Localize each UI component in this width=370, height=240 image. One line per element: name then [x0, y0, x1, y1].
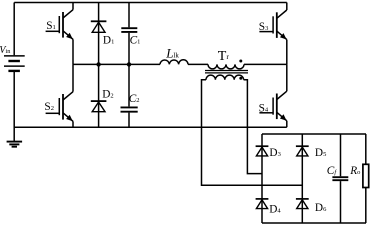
- transformer Tr primary polarity dot: [239, 60, 242, 63]
- capacitor Cf: [332, 134, 348, 223]
- ground: [7, 142, 23, 147]
- wire secondary right terminal to D3 D4 midpoint: [244, 80, 262, 174]
- wire S3 collector to top rail: [286, 3, 288, 11]
- svg-text:C2: C2: [129, 93, 140, 105]
- capacitor C1: [121, 3, 137, 65]
- wire mid rail node A: [73, 63, 160, 65]
- svg-text:S4: S4: [259, 102, 269, 114]
- wire S4 collector to midpoint: [286, 64, 288, 91]
- diode D1: [91, 3, 107, 65]
- svg-text:S2: S2: [44, 101, 54, 113]
- wire S2 emitter to bottom rail: [72, 121, 74, 127]
- transistor S4: [259, 91, 286, 121]
- wire top rail: [14, 2, 287, 4]
- resistor Ro: [363, 134, 369, 223]
- wire S1 emitter to mid node: [72, 39, 74, 64]
- wire S3 emitter to midpoint: [286, 40, 288, 65]
- wire bottom rail: [14, 126, 287, 128]
- diode D6: [296, 199, 309, 209]
- diode D4: [256, 199, 269, 209]
- svg-text:S1: S1: [46, 20, 56, 32]
- diode D5: [296, 146, 309, 156]
- svg-text:S3: S3: [259, 21, 269, 33]
- svg-text:Tr: Tr: [218, 49, 230, 64]
- wire bridge right leg: [301, 134, 303, 223]
- svg-text:D2: D2: [102, 88, 113, 100]
- wire primary to S3 S4 midpoint: [244, 63, 287, 65]
- svg-text:C1: C1: [130, 35, 141, 47]
- svg-text:D3: D3: [269, 147, 280, 159]
- wire S2 collector to mid node: [72, 64, 74, 91]
- transformer Tr primary winding: [208, 64, 244, 69]
- transformer Tr secondary winding: [206, 75, 244, 80]
- transformer Tr secondary polarity dot: [239, 77, 242, 80]
- wire bridge left leg: [261, 134, 263, 223]
- junction dot D1-D2: [96, 62, 100, 66]
- wire bridge bottom rail: [262, 222, 366, 224]
- wire left rail upper: [13, 3, 15, 56]
- svg-text:D4: D4: [269, 204, 281, 216]
- transformer Tr core: [205, 71, 248, 73]
- wire bridge top rail: [262, 133, 366, 135]
- junction dot C1-C2: [127, 62, 131, 66]
- svg-text:D5: D5: [315, 147, 326, 159]
- battery Vin: [4, 56, 25, 71]
- wire Llk to primary: [188, 63, 208, 65]
- wire S1 collector to top rail: [72, 3, 74, 10]
- diode D2: [91, 64, 107, 127]
- transistor S3: [259, 10, 286, 40]
- transistor S2: [46, 92, 73, 122]
- wire left rail lower: [13, 71, 15, 142]
- svg-text:Ro: Ro: [349, 165, 360, 177]
- wire secondary left terminal to D5 D6 midpoint: [202, 80, 303, 185]
- svg-text:D6: D6: [315, 202, 327, 214]
- transistor S1: [46, 10, 73, 40]
- svg-text:Llk: Llk: [165, 45, 179, 60]
- capacitor C2: [121, 64, 138, 127]
- diode D3: [256, 146, 269, 156]
- wire S4 emitter to bottom rail: [286, 121, 288, 127]
- svg-text:Cf: Cf: [327, 165, 338, 177]
- svg-text:D1: D1: [103, 35, 114, 47]
- inductor Llk: [160, 60, 188, 65]
- svg-text:Vin: Vin: [0, 45, 11, 56]
